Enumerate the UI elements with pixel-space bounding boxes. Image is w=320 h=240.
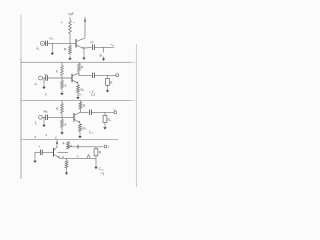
ground load stage1 [103, 57, 105, 59]
resistor RL3 box [103, 115, 107, 122]
emitter wire down [83, 49, 85, 56]
svg-text:≤: ≤ [55, 136, 57, 140]
transistor Q3 [73, 113, 75, 122]
wire to terminal stage 2 [94, 74, 115, 76]
resistor to ground at input [51, 43, 53, 50]
left border of figure frame [20, 15, 22, 179]
output wire stage 2 [79, 73, 92, 75]
svg-text:k: k [71, 144, 73, 148]
ground RE3 [79, 132, 81, 134]
bottom border of figure frame [21, 178, 128, 180]
ground RE2 [77, 93, 79, 95]
resistor RE4 [66, 158, 68, 160]
source terminal stage2 [39, 76, 43, 80]
svg-text:x: x [45, 93, 47, 97]
svg-text:∿: ∿ [76, 155, 79, 159]
svg-text:∿₁: ∿₁ [111, 43, 116, 47]
ground RL4 [95, 165, 97, 167]
capacitor C6 [89, 110, 91, 115]
svg-text:b: b [56, 70, 58, 74]
wire y158 to right [70, 157, 96, 159]
load branch stage 2 [107, 75, 109, 78]
capacitor C1 [45, 42, 46, 44]
junction tick [77, 145, 79, 149]
wire base Q2 [48, 77, 73, 79]
svg-text:R₅: R₅ [108, 118, 112, 122]
collector wire Q4 with arrow [56, 140, 58, 148]
ground RL3 [104, 122, 106, 125]
ground R6 [61, 130, 63, 132]
svg-text:∧: ∧ [34, 135, 36, 139]
svg-text:〉: 〉 [108, 144, 111, 149]
wire to terminal stage 3 [91, 111, 113, 113]
wire continues right of Q4 [58, 151, 69, 153]
svg-text:R: R [110, 81, 113, 85]
resistor R3 upper divider [61, 62, 63, 65]
svg-text:g₁: g₁ [100, 53, 104, 57]
load branch [103, 47, 105, 52]
svg-text:R₂: R₂ [83, 127, 87, 131]
capacitor C5 [42, 116, 45, 118]
supply rail 1 [40, 16, 104, 18]
ground under input 3 [43, 117, 45, 122]
ground R2 [69, 56, 71, 58]
svg-text:+: + [39, 145, 41, 149]
resistor Rk stage4 [67, 142, 70, 150]
svg-text:№₂: №₂ [44, 110, 50, 114]
ground input [51, 51, 53, 53]
output wire stage 1 [84, 47, 92, 49]
svg-text:R: R [64, 48, 67, 52]
svg-text:∼: ∼ [73, 21, 76, 25]
svg-text:e₁: e₁ [37, 47, 41, 51]
svg-text:Rₖ: Rₖ [81, 88, 85, 92]
ground under input 2 [43, 78, 45, 85]
svg-text:C₀₂: C₀₂ [99, 167, 105, 171]
svg-text:R: R [83, 104, 86, 108]
emitter resistor RE3 [79, 123, 81, 125]
svg-text:a: a [65, 84, 67, 88]
wire below RL4 [95, 156, 97, 165]
emitter junction wire [60, 157, 71, 160]
wire base Q4 [42, 151, 53, 153]
svg-text:Cₖ: Cₖ [78, 93, 82, 97]
svg-text:K: K [62, 156, 65, 160]
resistor RL4 box [94, 149, 98, 156]
resistor RL2 box [106, 78, 110, 85]
svg-text:ζ₀₂: ζ₀₂ [89, 130, 94, 134]
transistor Q4 [53, 148, 55, 157]
resistor R4 lower divider [61, 81, 64, 89]
right page edge line [135, 44, 137, 187]
source terminal stage3 [39, 115, 43, 119]
capacitor C2 [92, 45, 94, 50]
svg-text:4-: 4- [63, 142, 66, 146]
svg-text:∴η: ∴η [100, 172, 104, 176]
load branch stage 4 [95, 147, 97, 149]
wire to output terminal [94, 46, 112, 48]
ground R4 [61, 91, 63, 93]
svg-text:R: R [99, 151, 102, 155]
svg-text:R: R [81, 66, 84, 70]
wire base Q3 [48, 116, 75, 118]
svg-text:1µF: 1µF [68, 12, 74, 16]
transistor Q1 [75, 39, 77, 48]
resistor R6 lower divider [61, 120, 64, 128]
svg-text:m: m [91, 41, 94, 45]
transistor Q2 [71, 74, 73, 83]
svg-text:▾: ▾ [66, 172, 68, 176]
collector wire with arrow [84, 17, 86, 37]
output terminal stage 2 [116, 74, 119, 77]
collector resistor RC2 [78, 62, 80, 63]
svg-text:Cₕ: Cₕ [50, 37, 54, 41]
wire y147 stage 4 [68, 146, 103, 148]
emitter resistor RE2 [77, 83, 79, 85]
ground RE4 [66, 168, 68, 170]
collector resistor RC3 [80, 100, 82, 102]
resistor R1 bias upper [69, 17, 71, 20]
svg-text:∿: ∿ [60, 21, 63, 25]
capacitor C3 [42, 77, 45, 79]
svg-text:x: x [46, 133, 48, 137]
svg-text:R: R [56, 107, 59, 111]
source e1 [40, 41, 44, 45]
rail 2 (stage separator) [21, 61, 131, 63]
wire left of C7 [35, 151, 40, 153]
ground left stage4 [34, 152, 36, 158]
load branch stage 3 [104, 112, 106, 115]
resistor R2 bias lower [69, 46, 72, 55]
output wire stage 3 [81, 111, 89, 113]
svg-text:λ₀: λ₀ [35, 82, 39, 86]
svg-text:ξ: ξ [35, 121, 37, 125]
ground emitter Q1 [83, 56, 85, 58]
small transistor mark [87, 155, 91, 159]
wire base Q1 [48, 42, 77, 44]
capacitor C4 [92, 73, 94, 78]
output terminal stage 4 [104, 145, 107, 148]
svg-text:a: a [65, 123, 67, 127]
resistor R5 upper divider [61, 100, 63, 103]
rail 4 (stage separator) [21, 139, 118, 141]
svg-text:ε₁x: ε₁x [91, 93, 96, 97]
rail 3 (stage separator) [21, 99, 131, 101]
ground RL2 [107, 85, 109, 88]
